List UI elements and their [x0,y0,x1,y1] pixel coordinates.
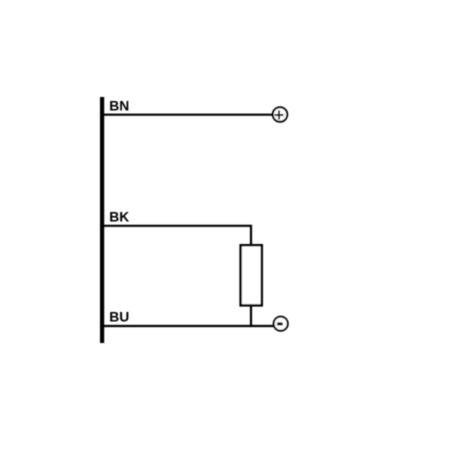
svg-text:BN: BN [109,98,129,113]
wire from resistor bottom to BU line [250,305,252,327]
svg-text:BK: BK [109,210,129,225]
load resistor [241,245,262,305]
sensor connection bar [100,97,104,343]
terminal + (supply plus) [273,107,288,122]
wire BU (blue) from bar to minus terminal [104,325,273,327]
svg-text:BU: BU [109,310,129,325]
wire BN (brown) from bar to plus terminal [104,114,272,116]
terminal - (supply minus) [274,317,288,331]
wire BK (black) from bar, right then down to load resistor [104,226,251,246]
